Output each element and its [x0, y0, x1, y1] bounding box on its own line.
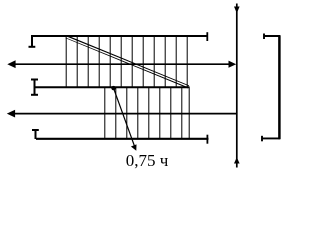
vertical line bottom arrowhead (pointing up)	[234, 157, 240, 163]
bracket right vertical	[278, 35, 281, 139]
vertical line top arrowhead (pointing down)	[234, 7, 240, 14]
leader arrowhead (pointing down-right at label)	[131, 144, 137, 150]
bar 1 left cap (tick below with foot serif)	[29, 36, 36, 47]
bracket bottom tick	[261, 136, 263, 142]
svg-text:0,75 ч: 0,75 ч	[126, 151, 169, 170]
bar 2 (middle horizontal process line)	[35, 86, 190, 88]
arrow A left head	[7, 60, 15, 68]
hatch block 2 (vertical hatch lines between bar 2 and bar 3)	[105, 87, 189, 139]
leader dot on bar 2	[111, 86, 115, 90]
diagonal double line (white core)	[65, 36, 190, 87]
hatch block 1 (vertical hatch lines between bar 1 and bar 2)	[66, 36, 187, 87]
bar 3 right cap tick	[206, 135, 208, 144]
bracket bottom horizontal	[262, 137, 281, 139]
bar 3 (bottom horizontal process line)	[36, 138, 209, 140]
diagonal double line (outer stroke)	[66, 37, 189, 87]
bar 3 left cap (tick above with top serif)	[32, 130, 39, 139]
bar 1 right cap tick	[206, 32, 208, 41]
horizontal arrow B (lower, left head only)	[9, 113, 237, 115]
arrow A right head	[229, 61, 237, 68]
bar 1 (top horizontal process line)	[31, 35, 208, 37]
vertical reference line	[236, 4, 238, 168]
leader line to label	[114, 88, 136, 147]
arrow B left head	[7, 110, 15, 118]
bracket top horizontal	[264, 35, 281, 37]
bar 2 left cap (I-beam)	[31, 79, 38, 95]
double-headed horizontal arrow A (upper)	[10, 63, 233, 65]
bracket top tick	[263, 34, 265, 40]
